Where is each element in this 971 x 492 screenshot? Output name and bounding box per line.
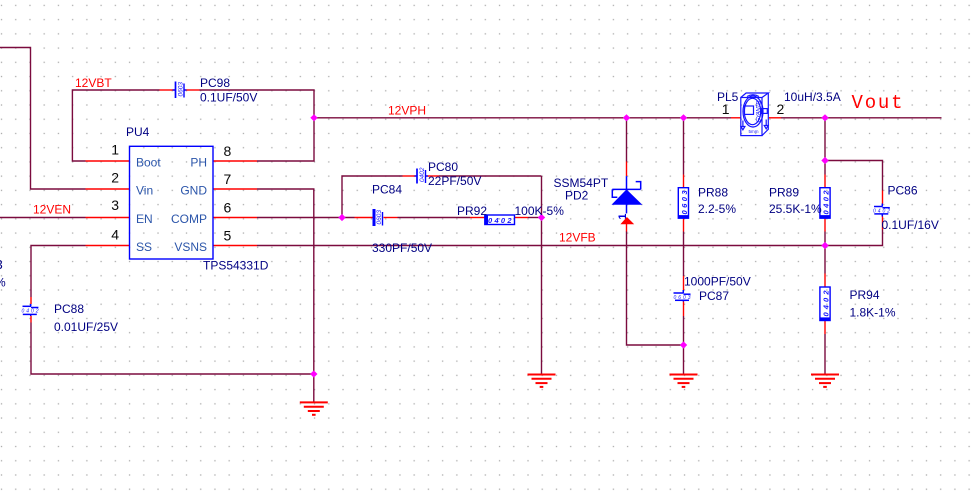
svg-text:Vin: Vin bbox=[136, 184, 153, 198]
svg-text:6: 6 bbox=[224, 199, 232, 215]
svg-text:0402: 0402 bbox=[821, 190, 830, 215]
svg-text:1.8K-1%: 1.8K-1% bbox=[850, 306, 896, 320]
svg-text:1: 1 bbox=[111, 141, 119, 157]
svg-text:22PF/50V: 22PF/50V bbox=[428, 174, 481, 188]
svg-text:12VBT: 12VBT bbox=[75, 76, 112, 90]
svg-text:2.2-5%: 2.2-5% bbox=[698, 202, 736, 216]
svg-text:2: 2 bbox=[111, 169, 119, 185]
svg-text:COMP: COMP bbox=[171, 212, 207, 226]
svg-text:8: 8 bbox=[224, 143, 232, 159]
svg-text:TPS54331D: TPS54331D bbox=[203, 259, 269, 273]
svg-text:0.1UF/50V: 0.1UF/50V bbox=[200, 90, 257, 104]
svg-text:1000PF/50V: 1000PF/50V bbox=[684, 275, 751, 289]
svg-text:0402: 0402 bbox=[22, 309, 39, 315]
svg-text:0402: 0402 bbox=[488, 216, 512, 225]
svg-text:SS: SS bbox=[136, 240, 152, 254]
svg-text:0402: 0402 bbox=[419, 167, 426, 182]
svg-text:330PF/50V: 330PF/50V bbox=[372, 241, 432, 255]
svg-text:PR88: PR88 bbox=[698, 186, 728, 200]
svg-text:12VEN: 12VEN bbox=[33, 203, 71, 217]
svg-text:PR92: PR92 bbox=[457, 204, 487, 218]
svg-text:4: 4 bbox=[111, 226, 119, 242]
svg-text:Boot: Boot bbox=[136, 156, 161, 170]
svg-text:PC88: PC88 bbox=[54, 302, 84, 316]
svg-text:PC86: PC86 bbox=[888, 184, 918, 198]
svg-text:10uH/3.5A: 10uH/3.5A bbox=[784, 90, 841, 104]
svg-text:0603: 0603 bbox=[680, 190, 689, 215]
svg-text:5mm: 5mm bbox=[749, 129, 759, 134]
svg-text:0.1UF/16V: 0.1UF/16V bbox=[882, 218, 939, 232]
svg-text:3: 3 bbox=[0, 257, 3, 272]
svg-text:PH: PH bbox=[190, 156, 207, 170]
svg-text:25.5K-1%: 25.5K-1% bbox=[769, 202, 822, 216]
svg-text:0603: 0603 bbox=[674, 295, 691, 301]
svg-text:12VFB: 12VFB bbox=[559, 230, 596, 244]
svg-text:12VPH: 12VPH bbox=[388, 104, 426, 118]
svg-text:GND: GND bbox=[180, 184, 207, 198]
svg-text:PC84: PC84 bbox=[372, 183, 402, 197]
svg-text:100K-5%: 100K-5% bbox=[515, 204, 565, 218]
svg-text:EN: EN bbox=[136, 212, 153, 226]
svg-text:PR94: PR94 bbox=[850, 288, 880, 302]
svg-text:0603: 0603 bbox=[376, 210, 383, 225]
svg-text:PL5: PL5 bbox=[717, 90, 739, 104]
svg-text:VSNS: VSNS bbox=[174, 240, 207, 254]
svg-text:0402: 0402 bbox=[873, 209, 890, 215]
svg-text:PC80: PC80 bbox=[428, 160, 458, 174]
svg-text:Vout: Vout bbox=[852, 92, 905, 114]
svg-text:5: 5 bbox=[224, 228, 232, 244]
svg-text:PR89: PR89 bbox=[769, 186, 799, 200]
svg-text:7: 7 bbox=[224, 171, 232, 187]
svg-text:GYANTD: GYANTD bbox=[757, 100, 763, 123]
svg-text:PD2: PD2 bbox=[565, 188, 589, 202]
svg-text:0.01UF/25V: 0.01UF/25V bbox=[54, 320, 118, 334]
svg-text:PC98: PC98 bbox=[200, 76, 230, 90]
svg-text:PU4: PU4 bbox=[126, 125, 150, 139]
svg-text:0603: 0603 bbox=[178, 82, 185, 97]
svg-text:PC87: PC87 bbox=[699, 289, 729, 303]
svg-text:3: 3 bbox=[111, 197, 119, 213]
svg-text:%: % bbox=[0, 276, 6, 290]
